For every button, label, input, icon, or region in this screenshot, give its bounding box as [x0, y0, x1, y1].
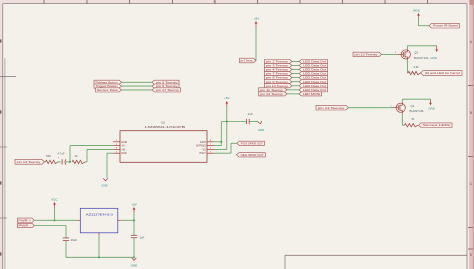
- label LED Data Out: [299, 59, 328, 63]
- label Power IR Barrel: [429, 23, 460, 28]
- svg-text:LED MOSI: LED MOSI: [303, 92, 321, 96]
- junction: [226, 120, 228, 122]
- pin 3 +IN: [113, 148, 120, 150]
- svg-text:Q2: Q2: [414, 51, 418, 55]
- wire source Q2: [406, 60, 409, 73]
- wire drain Q2: [406, 46, 409, 49]
- svg-text:pin 8 Teensy: pin 8 Teensy: [266, 76, 289, 80]
- label LED Data Out: [299, 63, 328, 67]
- svg-text:LED Data Out: LED Data Out: [303, 64, 326, 68]
- svg-text:pin 9 Teensy: pin 9 Teensy: [266, 80, 289, 84]
- svg-text:LED Data Out: LED Data Out: [303, 80, 326, 84]
- wire: [133, 238, 136, 258]
- label pin 3 Teensy: [265, 63, 293, 67]
- wire drain Q1: [401, 99, 404, 102]
- junction: [53, 219, 55, 221]
- label pin 2 Teensy: [265, 59, 293, 63]
- label IR and LED for barrel: [421, 71, 463, 76]
- label pin 13 Teensy: [316, 105, 349, 110]
- sheet frame: [0, 0, 474, 3]
- svg-text:3.3k: 3.3k: [413, 65, 419, 69]
- wire: [66, 161, 70, 164]
- ground arrow: [436, 46, 438, 51]
- label PWR -: [18, 223, 35, 227]
- label pin 11 Teensy: [259, 88, 288, 92]
- junction: [133, 219, 135, 221]
- svg-text:LED Data Out: LED Data Out: [303, 59, 326, 63]
- wire PWR+: [34, 219, 77, 222]
- wire row 1: [292, 60, 299, 63]
- junction: [220, 141, 222, 143]
- wire: [382, 53, 398, 56]
- svg-text:pin 7 Teensy: pin 7 Teensy: [266, 72, 289, 76]
- svg-text:pin 12 Teensy: pin 12 Teensy: [260, 92, 284, 96]
- title block: [285, 254, 467, 256]
- label pin 10 Teensy: [265, 84, 293, 88]
- ground arrow: [429, 99, 431, 104]
- svg-text:LED Data Out: LED Data Out: [303, 84, 326, 88]
- wire VOUT: [214, 152, 231, 155]
- label pin 8 Teensy: [265, 76, 293, 80]
- svg-text:Sensor Data: Sensor Data: [97, 88, 118, 92]
- label LED Data Out: [299, 88, 328, 92]
- svg-text:pin 10 Teensy: pin 10 Teensy: [355, 52, 379, 56]
- svg-text:BYPASS: BYPASS: [196, 145, 206, 148]
- wire row 9: [287, 93, 299, 96]
- svg-text:51: 51: [412, 117, 416, 121]
- label NEG SPKR OUT: [237, 153, 266, 157]
- svg-text:BUK9Y15L,: BUK9Y15L,: [414, 56, 430, 60]
- label PWR +: [18, 218, 35, 222]
- label Sensor LEDs: [419, 123, 453, 128]
- label Release Button: [94, 80, 122, 84]
- label pin 12 Teensy: [259, 92, 288, 96]
- svg-text:GAIN: GAIN: [121, 141, 127, 144]
- label LED Data Out: [299, 67, 328, 71]
- wire: [122, 81, 153, 84]
- ground: [103, 178, 108, 181]
- wire gnd pin: [98, 236, 101, 258]
- svg-text:VCC: VCC: [51, 197, 58, 201]
- wire row 8: [287, 89, 299, 92]
- svg-text:pin 14 Teensy: pin 14 Teensy: [17, 160, 41, 164]
- svg-text:GAIN: GAIN: [200, 141, 206, 144]
- ground: [258, 121, 263, 125]
- svg-text:GND: GND: [121, 152, 127, 155]
- wire GAIN/BYPASS: [220, 122, 223, 146]
- svg-text:BUK9Y15L: BUK9Y15L: [410, 109, 425, 113]
- svg-text:pin 3 Teensy: pin 3 Teensy: [266, 64, 289, 68]
- label pin 6 Teensy: [152, 84, 179, 88]
- label POS SPKR OUT: [237, 141, 265, 145]
- wire: [133, 213, 136, 221]
- svg-text:LED Data Out: LED Data Out: [303, 88, 326, 92]
- label pin 14 Teensy: [15, 160, 45, 165]
- svg-text:pin 2 Teensy: pin 2 Teensy: [266, 59, 289, 63]
- svg-text:pin 11 Teensy: pin 11 Teensy: [260, 88, 284, 92]
- svg-text:+5V: +5V: [254, 17, 259, 21]
- label pin 17 Teensy: [152, 88, 181, 92]
- wire row 5: [292, 76, 299, 79]
- wire PWR-: [34, 224, 66, 227]
- svg-text:GND: GND: [101, 184, 107, 188]
- transistor Q2: [401, 50, 410, 59]
- svg-text:-IN: -IN: [121, 145, 124, 148]
- label pin 1 Teensy: [240, 58, 257, 63]
- wire to +IN: [85, 161, 87, 164]
- svg-text:LED Data Out: LED Data Out: [303, 72, 326, 76]
- svg-text:pin 4 Teensy: pin 4 Teensy: [266, 68, 289, 72]
- label Trigger Button: [94, 84, 122, 88]
- svg-text:U2: U2: [161, 120, 165, 124]
- ground: [132, 258, 137, 261]
- wire: [249, 120, 258, 123]
- wire row 4: [292, 72, 299, 75]
- pin 5 VOUT: [207, 152, 214, 154]
- svg-text:VS: VS: [202, 148, 206, 151]
- svg-text:pin 1 Teensy: pin 1 Teensy: [240, 59, 253, 63]
- svg-text:+IN: +IN: [121, 148, 125, 151]
- wire: [122, 85, 153, 88]
- junction: [98, 256, 100, 258]
- svg-text:GND: GND: [429, 107, 435, 111]
- pin 8 GAIN: [207, 141, 214, 143]
- svg-text:+5V: +5V: [224, 96, 229, 100]
- svg-text:MOS: MOS: [413, 9, 420, 13]
- pin 2 -IN: [113, 145, 120, 147]
- svg-text:4.7uF: 4.7uF: [57, 151, 64, 155]
- pin 6 VS: [207, 148, 214, 150]
- wire bypass cap: [221, 120, 246, 123]
- frame row tick: [0, 75, 16, 77]
- transistor Q1: [396, 103, 405, 112]
- svg-text:.33uF: .33uF: [70, 238, 77, 242]
- capacitor 1uF: [131, 234, 137, 236]
- svg-text:LM386N-1/NOPB: LM386N-1/NOPB: [145, 125, 185, 129]
- label LED Data Out: [299, 76, 328, 80]
- wire VS: [226, 106, 229, 149]
- svg-text:VOUT: VOUT: [199, 152, 206, 155]
- label pin 5 Teensy: [152, 80, 179, 84]
- junction: [133, 256, 135, 258]
- label LED MOSI: [299, 92, 322, 96]
- label pin 4 Teensy: [265, 67, 293, 71]
- wire: [122, 89, 153, 92]
- svg-text:+5V: +5V: [131, 203, 136, 207]
- wire row 7: [292, 85, 299, 88]
- pin 7 BYPASS: [207, 145, 214, 147]
- label LED Data Out: [299, 72, 328, 76]
- label LED Data Out: [299, 84, 328, 88]
- svg-text:1uF: 1uF: [140, 236, 145, 240]
- wire: [349, 106, 393, 109]
- pin 1 GAIN: [113, 141, 120, 143]
- label pin 7 Teensy: [265, 72, 293, 76]
- capacitor 33uF: [63, 237, 69, 239]
- regulator U1: [80, 208, 118, 233]
- label pin 10 Teensy: [353, 52, 382, 56]
- svg-text:B: B: [470, 111, 472, 115]
- pin 4 GND: [113, 152, 120, 154]
- label pin 9 Teensy: [265, 80, 293, 84]
- svg-text:LED Data Out: LED Data Out: [303, 68, 326, 72]
- svg-text:pin 10 Teensy: pin 10 Teensy: [266, 84, 289, 88]
- junction: [69, 161, 71, 163]
- wire out: [121, 219, 134, 222]
- label Sensor Data: [96, 88, 122, 92]
- wire: [417, 18, 420, 26]
- wire to -IN: [69, 146, 72, 162]
- svg-text:.1uF: .1uF: [247, 112, 253, 116]
- wire: [65, 241, 68, 258]
- wire: [53, 208, 56, 221]
- svg-text:GND: GND: [258, 128, 264, 132]
- label LED Data Out: [299, 80, 328, 84]
- svg-text:LED Data Out: LED Data Out: [303, 76, 326, 80]
- wire GND pin: [107, 152, 113, 155]
- wire source Q1: [401, 114, 404, 126]
- svg-text:820: 820: [46, 154, 51, 158]
- svg-text:pin 17 Teensy: pin 17 Teensy: [156, 88, 180, 92]
- wire: [255, 26, 258, 61]
- svg-text:GND: GND: [431, 56, 437, 60]
- svg-text:pin 13 Teensy: pin 13 Teensy: [318, 106, 345, 110]
- wire row 3: [292, 68, 299, 71]
- svg-text:Q1: Q1: [411, 104, 415, 108]
- wire row 6: [292, 80, 299, 83]
- svg-text:GND: GND: [131, 263, 137, 267]
- wire row 2: [292, 64, 299, 67]
